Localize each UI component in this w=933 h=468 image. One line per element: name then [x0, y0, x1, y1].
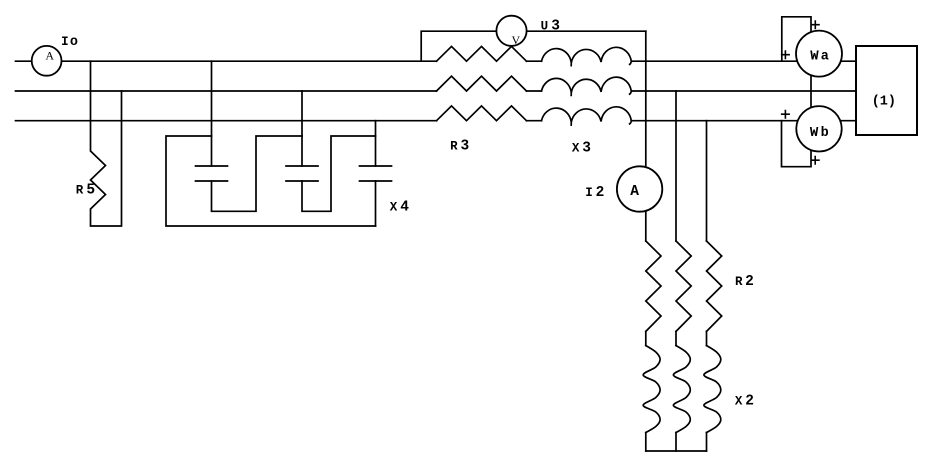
polarity mark + at Wa left — [782, 51, 789, 58]
capacitor C3 bottom plate — [360, 180, 392, 182]
wire from L2 down to load leg 2 — [675, 91, 677, 241]
capacitor C3 top plate — [360, 165, 392, 167]
ammeter Io circle — [32, 46, 62, 76]
wire leg 3 to bottom bar — [706, 433, 708, 452]
resistor R3 phase 3 — [437, 106, 527, 121]
resistor R2 leg 3 — [707, 241, 722, 331]
wire from L2 down to capacitor C2 — [301, 91, 303, 166]
wire voltmeter bypass loop — [421, 31, 646, 61]
svg-text:V: V — [512, 33, 521, 47]
wire between R3 and X3 phase 3 — [527, 120, 542, 122]
load box (1) — [856, 46, 917, 135]
wire phase L1 bus right segment — [632, 60, 857, 62]
svg-text:Io: Io — [61, 35, 78, 50]
wire between R3 and X3 phase 1 — [527, 60, 542, 62]
wire leg 1 to bottom bar — [645, 433, 647, 452]
polarity mark + at Wb bottom — [812, 157, 819, 164]
inductor X2 leg 1 — [643, 346, 660, 433]
resistor R5 with connecting wires — [91, 61, 122, 226]
wire phase L2 bus left segment — [16, 90, 437, 92]
svg-text:R3: R3 — [450, 139, 469, 155]
svg-text:R2: R2 — [735, 274, 754, 290]
wire phase L2 bus right segment — [632, 90, 857, 92]
wire from C1 bottom to C2 top — [212, 136, 303, 211]
inductor X2 leg 2 — [673, 346, 690, 433]
svg-text:X3: X3 — [572, 140, 591, 156]
svg-text:R5: R5 — [76, 183, 95, 199]
polarity mark + at Wa top — [812, 21, 819, 28]
wire phase L3 bus left segment — [16, 120, 437, 122]
svg-text:I2: I2 — [585, 185, 604, 201]
wire leg 2 to bottom bar — [675, 433, 677, 452]
wire bottom bar joining load legs — [646, 450, 707, 452]
capacitor C1 top plate — [196, 165, 228, 167]
wire from C2 bottom to C3 top — [302, 136, 376, 211]
wire from L1 down to capacitor C1 — [211, 61, 213, 166]
capacitor C2 top plate — [286, 165, 318, 167]
wire from C3 bottom to bank bottom — [375, 181, 377, 226]
inductor X3 phase 1 — [542, 47, 632, 65]
svg-text:A: A — [45, 49, 54, 63]
svg-text:A: A — [630, 184, 639, 200]
wattmeter Wb circle — [796, 106, 841, 151]
inductor X3 phase 2 — [542, 77, 632, 95]
svg-text:X2: X2 — [735, 394, 754, 410]
svg-text:U3: U3 — [541, 19, 560, 35]
resistor R2 leg 2 — [676, 241, 691, 331]
wire phase L1 bus left segment — [16, 60, 437, 62]
resistor R3 phase 1 — [437, 46, 527, 61]
voltmeter U3 circle — [496, 16, 526, 46]
wire from L3 down to capacitor C3 — [375, 121, 377, 166]
wire between R3 and X3 phase 2 — [527, 90, 542, 92]
polarity mark + at Wb left — [782, 111, 789, 118]
wire between R2 and X2 leg 3 — [706, 331, 708, 345]
resistor R2 leg 1 — [646, 241, 661, 331]
inductor X3 phase 3 — [542, 107, 632, 125]
wattmeter Wa circle — [796, 31, 842, 77]
svg-text:X4: X4 — [390, 199, 410, 215]
wire capacitor bank loop closing — [166, 136, 376, 226]
capacitor C1 bottom plate — [196, 180, 228, 182]
wire from V bypass down through ammeter I2 to load leg 1 — [645, 31, 647, 241]
ammeter I2 circle — [617, 166, 662, 211]
wire between R2 and X2 leg 2 — [675, 331, 677, 345]
resistor R3 phase 2 — [437, 76, 527, 91]
wire from L3 down to load leg 3 — [706, 121, 708, 241]
inductor X2 leg 3 — [704, 346, 721, 433]
capacitor C2 bottom plate — [286, 180, 318, 182]
wire between R2 and X2 leg 1 — [645, 331, 647, 345]
wire wattmeter Wa voltage loop and Wa-Wb link — [782, 17, 812, 167]
wire phase L3 bus right segment — [632, 120, 857, 122]
svg-text:(1): (1) — [872, 95, 896, 110]
